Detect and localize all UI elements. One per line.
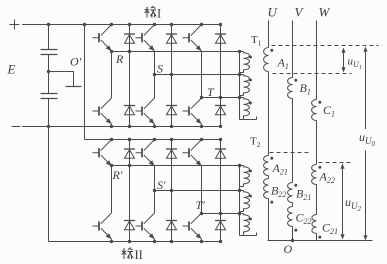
svg-text:A22: A22 <box>319 170 335 186</box>
label A22 <box>319 170 335 186</box>
svg-text:T: T <box>207 85 215 99</box>
diode VD6 (bridge I lower leg 3) <box>215 106 226 115</box>
transistor V5 (bridge I lower leg 2) <box>136 98 155 124</box>
minus terminal <box>12 126 21 128</box>
dimension arrow u_U0 <box>363 47 367 241</box>
wire T1 winding b return <box>240 95 244 97</box>
svg-text:uU2: uU2 <box>345 195 362 213</box>
label u_U2 <box>345 195 362 213</box>
label B22 <box>271 184 286 200</box>
winding A22 <box>312 165 322 185</box>
svg-text:I: I <box>157 7 161 21</box>
label T' <box>196 198 206 212</box>
wire leg 1 midpoint bridge I <box>110 23 131 128</box>
label W <box>319 5 331 20</box>
transformer primary winding T1-b <box>244 75 252 96</box>
node O' <box>49 72 82 87</box>
svg-text:O: O <box>284 242 293 256</box>
plus terminal <box>10 20 20 30</box>
wire diode column leg 1 bridge II <box>128 138 131 243</box>
wire emitter stub leg 1 bridge II <box>111 239 113 242</box>
svg-text:S′: S′ <box>157 178 166 192</box>
diode VD8 (bridge II upper leg 2) <box>166 149 177 158</box>
svg-text:uU0: uU0 <box>359 130 376 148</box>
label u_U0 <box>359 130 376 148</box>
dashed coupling line group 2 right <box>319 162 353 164</box>
wire + rail <box>22 24 221 26</box>
transformer primary winding T2-a <box>244 166 252 187</box>
wire T1 primary bus <box>238 50 241 120</box>
svg-text:T2: T2 <box>250 136 261 150</box>
label U <box>268 5 279 20</box>
transistor V11 (bridge II lower leg 2) <box>136 213 155 239</box>
capacitor C1 <box>41 50 58 55</box>
dashed coupling line group 2 left <box>270 152 311 154</box>
wire T2 primary bus <box>238 164 241 236</box>
svg-text:E: E <box>7 62 16 77</box>
wire U line <box>268 21 270 241</box>
label T2 <box>250 136 261 150</box>
transistor V4 (bridge I lower leg 1) <box>93 98 112 124</box>
wire diode column leg 1 bridge I <box>128 23 131 128</box>
transistor V1 (bridge I upper leg 1) <box>93 25 112 52</box>
svg-text:W: W <box>319 5 331 20</box>
winding C21 <box>312 215 321 239</box>
svg-text:A21: A21 <box>272 161 288 177</box>
wire T1 winding a return <box>240 72 244 74</box>
winding A1 <box>264 48 274 72</box>
wire emitter stub leg 3 bridge I <box>201 124 203 127</box>
label T1 <box>251 34 262 48</box>
wire T1 winding c return <box>240 117 257 120</box>
label C1 <box>323 103 335 119</box>
transistor V2 (bridge I upper leg 2) <box>136 25 155 52</box>
wire cap bottom lead <box>47 99 50 129</box>
diode VD7 (bridge II upper leg 1) <box>124 149 135 158</box>
wire emitter stub leg 1 bridge I <box>111 124 113 127</box>
wire diode column leg 2 bridge II <box>170 138 173 243</box>
label S' <box>157 178 166 192</box>
winding C22 <box>288 207 298 232</box>
svg-text:C21: C21 <box>322 221 338 237</box>
transistor V10 (bridge II lower leg 1) <box>93 213 112 239</box>
diode VD1 (bridge I upper leg 1) <box>124 34 135 43</box>
svg-text:O′: O′ <box>70 55 82 69</box>
transformer primary winding T1-a <box>244 52 252 73</box>
node S' wire <box>155 190 244 192</box>
diode VD10 (bridge II lower leg 1) <box>124 221 135 230</box>
label T <box>207 85 215 99</box>
node S wire <box>155 74 244 76</box>
wire + feed to bridge II <box>83 23 86 140</box>
transistor V7 (bridge II upper leg 1) <box>93 140 112 167</box>
svg-text:R: R <box>115 52 124 66</box>
svg-text:II: II <box>135 248 143 262</box>
wire - rail <box>22 126 221 128</box>
svg-text:C1: C1 <box>323 103 335 119</box>
label A1 <box>277 56 289 72</box>
wire cap mid lead <box>47 55 50 94</box>
node R wire <box>112 51 244 53</box>
label u_U1 <box>348 56 363 71</box>
wire cap top lead <box>47 23 50 50</box>
label B1 <box>300 81 311 97</box>
diode VD4 (bridge I lower leg 1) <box>124 106 135 115</box>
svg-text:C22: C22 <box>296 211 312 227</box>
wire leg 2 midpoint bridge II <box>153 138 173 243</box>
wire diode column leg 3 bridge I <box>219 23 222 128</box>
winding A21 <box>264 156 274 176</box>
svg-text:B21: B21 <box>296 187 311 203</box>
svg-text:V: V <box>295 5 305 20</box>
svg-text:R′: R′ <box>112 168 123 182</box>
wire bridge II top rail <box>85 139 221 141</box>
label O' <box>70 55 82 69</box>
svg-text:A1: A1 <box>277 56 289 72</box>
wire T2 winding c return <box>240 233 257 236</box>
transistor V6 (bridge I lower leg 3) <box>183 98 202 124</box>
diode VD9 (bridge II upper leg 3) <box>215 149 226 158</box>
wire leg 3 midpoint bridge I <box>200 23 222 128</box>
source E <box>7 62 16 77</box>
wire leg 3 midpoint bridge II <box>200 138 222 243</box>
wire V line <box>292 21 294 241</box>
wire W line <box>316 21 318 241</box>
winding B1 <box>288 78 298 99</box>
label C22 <box>296 211 312 227</box>
label B21 <box>296 187 311 203</box>
wire - feed to bridge II <box>48 127 50 242</box>
node O bus <box>268 239 373 242</box>
dimension arrow u_U1 <box>341 48 345 73</box>
wire T2 winding a return <box>240 186 244 188</box>
dashed coupling line group 1 bottom <box>273 73 352 75</box>
diode VD3 (bridge I upper leg 3) <box>215 34 226 43</box>
winding C1 <box>312 100 322 121</box>
diode VD11 (bridge II lower leg 2) <box>166 221 177 230</box>
transformer primary winding T2-c <box>244 214 252 236</box>
wire bridge II bottom rail <box>49 241 221 243</box>
wire leg 1 midpoint bridge II <box>110 138 131 243</box>
wire diode column leg 2 bridge I <box>170 23 173 128</box>
svg-text:U: U <box>268 5 279 20</box>
wire T2 winding b return <box>240 211 244 213</box>
winding B22 <box>264 179 274 204</box>
diode VD5 (bridge I lower leg 2) <box>166 106 177 115</box>
dashed coupling line group 1 top <box>272 45 379 47</box>
label O <box>284 242 293 256</box>
label V <box>295 5 305 20</box>
transformer primary winding T2-b <box>244 191 252 212</box>
svg-text:B1: B1 <box>300 81 311 97</box>
wire leg 2 midpoint bridge I <box>153 23 173 128</box>
node T' wire <box>202 213 244 215</box>
diode VD12 (bridge II lower leg 3) <box>215 221 226 230</box>
wire emitter stub leg 3 bridge II <box>201 239 203 242</box>
svg-text:S: S <box>157 62 163 76</box>
node T wire <box>202 97 244 99</box>
label bridge I <box>145 6 162 21</box>
label R' <box>112 168 123 182</box>
winding B21 <box>288 183 298 203</box>
label bridge II <box>122 248 143 263</box>
dimension arrow u_U2 <box>340 164 344 240</box>
transistor V3 (bridge I upper leg 3) <box>183 25 202 52</box>
svg-text:T1: T1 <box>251 34 262 48</box>
label C21 <box>322 221 338 237</box>
wire emitter stub leg 2 bridge II <box>154 239 156 242</box>
label R <box>115 52 124 66</box>
transformer primary winding T1-c <box>244 98 252 120</box>
capacitor C2 <box>41 94 58 99</box>
label A21 <box>272 161 288 177</box>
node R' wire <box>112 165 244 167</box>
transistor V8 (bridge II upper leg 2) <box>136 140 155 167</box>
wire emitter stub leg 2 bridge I <box>154 124 156 127</box>
transistor V12 (bridge II lower leg 3) <box>183 213 202 239</box>
svg-text:B22: B22 <box>271 184 286 200</box>
wire diode column leg 3 bridge II <box>219 138 222 243</box>
svg-text:T′: T′ <box>196 198 206 212</box>
svg-text:uU1: uU1 <box>348 56 363 71</box>
label S <box>157 62 163 76</box>
transistor V9 (bridge II upper leg 3) <box>183 140 202 167</box>
diode VD2 (bridge I upper leg 2) <box>166 34 177 43</box>
